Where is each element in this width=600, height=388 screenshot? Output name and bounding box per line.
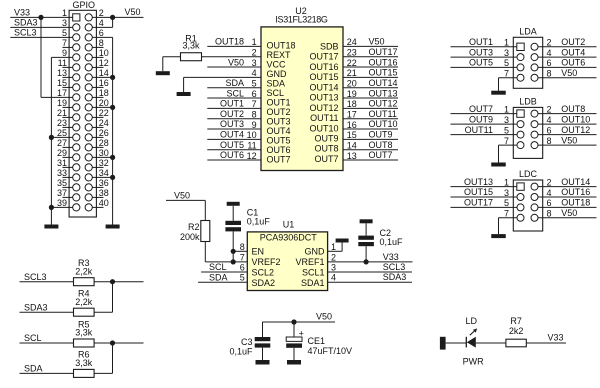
svg-text:7: 7 xyxy=(504,209,509,219)
svg-text:OUT15: OUT15 xyxy=(309,72,338,82)
svg-text:34: 34 xyxy=(99,168,109,178)
svg-text:C3: C3 xyxy=(241,337,253,347)
svg-text:V50: V50 xyxy=(561,135,577,145)
svg-text:3: 3 xyxy=(331,263,336,273)
svg-text:3,3k: 3,3k xyxy=(182,41,200,51)
svg-text:V50: V50 xyxy=(174,190,190,200)
svg-text:26: 26 xyxy=(99,128,109,138)
svg-text:V50: V50 xyxy=(316,312,332,322)
svg-text:10: 10 xyxy=(99,48,109,58)
svg-text:OUT18: OUT18 xyxy=(215,37,244,47)
svg-text:36: 36 xyxy=(99,178,109,188)
svg-text:1: 1 xyxy=(504,38,509,48)
svg-text:20: 20 xyxy=(347,79,357,89)
svg-text:SDA1: SDA1 xyxy=(301,278,325,288)
svg-text:SCL: SCL xyxy=(209,262,227,272)
svg-text:16: 16 xyxy=(347,120,357,130)
svg-text:SDA3: SDA3 xyxy=(24,302,48,312)
svg-text:OUT3: OUT3 xyxy=(469,47,493,57)
svg-text:OUT16: OUT16 xyxy=(309,62,338,72)
svg-text:OUT8: OUT8 xyxy=(314,144,338,154)
svg-text:OUT7: OUT7 xyxy=(469,104,493,114)
svg-text:OUT14: OUT14 xyxy=(369,78,398,88)
svg-text:12: 12 xyxy=(247,151,257,161)
svg-text:R2: R2 xyxy=(188,222,200,232)
svg-text:3,3k: 3,3k xyxy=(75,358,93,368)
svg-text:8: 8 xyxy=(252,110,257,120)
svg-text:10: 10 xyxy=(247,130,257,140)
svg-text:9: 9 xyxy=(62,48,67,58)
svg-text:7: 7 xyxy=(504,136,509,146)
svg-text:OUT15: OUT15 xyxy=(464,187,493,197)
svg-text:5: 5 xyxy=(252,79,257,89)
svg-text:22: 22 xyxy=(347,58,357,68)
svg-text:17: 17 xyxy=(57,88,67,98)
svg-text:200k: 200k xyxy=(180,232,200,242)
svg-text:OUT16: OUT16 xyxy=(561,187,590,197)
svg-text:6: 6 xyxy=(547,198,552,208)
svg-text:LDC: LDC xyxy=(519,169,538,179)
svg-text:14: 14 xyxy=(99,68,109,78)
svg-text:OUT6: OUT6 xyxy=(561,58,585,68)
svg-text:6: 6 xyxy=(547,58,552,68)
svg-text:V50: V50 xyxy=(369,37,385,47)
svg-text:OUT8: OUT8 xyxy=(369,140,393,150)
svg-text:3: 3 xyxy=(504,115,509,125)
svg-text:IS31FL3218G: IS31FL3218G xyxy=(275,15,328,25)
svg-text:GPIO: GPIO xyxy=(72,0,95,10)
svg-text:REXT: REXT xyxy=(267,50,292,60)
svg-text:OUT1: OUT1 xyxy=(469,37,493,47)
svg-text:3: 3 xyxy=(504,188,509,198)
svg-text:8: 8 xyxy=(547,69,552,79)
svg-text:OUT3: OUT3 xyxy=(220,119,244,129)
svg-text:23: 23 xyxy=(347,48,357,58)
svg-text:3: 3 xyxy=(504,48,509,58)
svg-text:SCL3: SCL3 xyxy=(24,272,47,282)
svg-text:OUT11: OUT11 xyxy=(369,109,397,119)
svg-text:VREF1: VREF1 xyxy=(295,257,324,267)
svg-text:5: 5 xyxy=(504,58,509,68)
svg-text:6: 6 xyxy=(547,125,552,135)
svg-text:4: 4 xyxy=(547,188,552,198)
svg-text:V50: V50 xyxy=(561,68,577,78)
svg-text:OUT9: OUT9 xyxy=(369,130,393,140)
svg-text:12: 12 xyxy=(99,58,109,68)
svg-text:OUT12: OUT12 xyxy=(369,99,398,109)
svg-text:1: 1 xyxy=(252,37,257,47)
svg-text:OUT9: OUT9 xyxy=(469,114,493,124)
svg-text:7: 7 xyxy=(252,99,257,109)
svg-text:40: 40 xyxy=(99,198,109,208)
svg-text:OUT7: OUT7 xyxy=(314,154,338,164)
svg-text:OUT17: OUT17 xyxy=(309,52,338,62)
svg-text:CE1: CE1 xyxy=(308,336,326,346)
svg-text:4: 4 xyxy=(99,18,104,28)
svg-text:2: 2 xyxy=(252,48,257,58)
svg-text:OUT13: OUT13 xyxy=(464,177,493,187)
svg-text:0,1uF: 0,1uF xyxy=(247,216,271,226)
svg-text:SCL3: SCL3 xyxy=(14,28,37,38)
svg-text:OUT13: OUT13 xyxy=(369,88,398,98)
svg-text:19: 19 xyxy=(57,98,67,108)
svg-text:6: 6 xyxy=(240,263,245,273)
svg-text:OUT1: OUT1 xyxy=(267,97,291,107)
svg-text:OUT5: OUT5 xyxy=(220,140,244,150)
svg-text:OUT11: OUT11 xyxy=(465,125,493,135)
svg-text:SCL: SCL xyxy=(24,333,42,343)
svg-text:0,1uF: 0,1uF xyxy=(229,347,253,357)
svg-text:V50: V50 xyxy=(561,208,577,218)
svg-text:OUT10: OUT10 xyxy=(369,119,398,129)
svg-text:2: 2 xyxy=(547,38,552,48)
svg-text:24: 24 xyxy=(99,118,109,128)
svg-text:35: 35 xyxy=(57,178,67,188)
svg-text:SCL1: SCL1 xyxy=(302,267,325,277)
svg-text:SDA: SDA xyxy=(24,364,43,374)
svg-text:OUT16: OUT16 xyxy=(369,57,398,67)
svg-text:33: 33 xyxy=(57,168,67,178)
svg-text:11: 11 xyxy=(247,141,256,151)
svg-text:VREF2: VREF2 xyxy=(252,257,281,267)
svg-text:LDB: LDB xyxy=(519,97,537,107)
svg-text:6: 6 xyxy=(252,89,257,99)
svg-text:29: 29 xyxy=(57,148,67,158)
svg-text:3: 3 xyxy=(252,58,257,68)
svg-text:25: 25 xyxy=(57,128,67,138)
svg-text:21: 21 xyxy=(347,68,357,78)
svg-text:SDB: SDB xyxy=(320,42,339,52)
svg-text:16: 16 xyxy=(99,78,109,88)
svg-text:32: 32 xyxy=(99,158,109,168)
svg-text:GND: GND xyxy=(305,246,326,256)
svg-text:V33: V33 xyxy=(548,333,564,343)
svg-text:1: 1 xyxy=(62,8,67,18)
svg-text:2: 2 xyxy=(99,8,104,18)
svg-text:18: 18 xyxy=(99,88,109,98)
svg-text:8: 8 xyxy=(547,136,552,146)
svg-text:37: 37 xyxy=(57,188,67,198)
svg-text:OUT11: OUT11 xyxy=(310,113,338,123)
svg-text:OUT10: OUT10 xyxy=(309,123,338,133)
svg-text:1: 1 xyxy=(504,104,509,114)
svg-text:5: 5 xyxy=(62,28,67,38)
svg-text:15: 15 xyxy=(57,78,67,88)
svg-text:SDA3: SDA3 xyxy=(383,272,407,282)
svg-text:47uFT/10V: 47uFT/10V xyxy=(308,346,353,356)
svg-text:8: 8 xyxy=(99,38,104,48)
svg-text:OUT14: OUT14 xyxy=(309,82,338,92)
svg-text:OUT6: OUT6 xyxy=(220,150,244,160)
svg-text:4: 4 xyxy=(331,273,336,283)
svg-text:OUT13: OUT13 xyxy=(309,93,338,103)
svg-text:LD: LD xyxy=(466,316,478,326)
svg-text:OUT7: OUT7 xyxy=(267,154,291,164)
svg-text:SDA: SDA xyxy=(209,272,228,282)
svg-text:PWR: PWR xyxy=(463,357,484,367)
svg-text:7: 7 xyxy=(62,38,67,48)
svg-text:OUT4: OUT4 xyxy=(267,126,291,136)
svg-text:3,3k: 3,3k xyxy=(75,328,93,338)
svg-text:OUT17: OUT17 xyxy=(369,47,398,57)
svg-text:OUT5: OUT5 xyxy=(469,58,493,68)
svg-text:13: 13 xyxy=(57,68,67,78)
svg-text:2: 2 xyxy=(547,104,552,114)
svg-text:7: 7 xyxy=(240,252,245,262)
svg-text:9: 9 xyxy=(252,120,257,130)
svg-text:13: 13 xyxy=(347,151,357,161)
svg-text:R7: R7 xyxy=(510,316,522,326)
svg-text:0,1uF: 0,1uF xyxy=(380,237,404,247)
svg-text:U1: U1 xyxy=(283,220,295,230)
svg-text:7: 7 xyxy=(504,69,509,79)
svg-text:OUT14: OUT14 xyxy=(561,177,590,187)
svg-text:2,2k: 2,2k xyxy=(75,266,93,276)
svg-text:GND: GND xyxy=(267,69,288,79)
svg-text:14: 14 xyxy=(347,141,357,151)
svg-text:11: 11 xyxy=(58,58,67,68)
svg-text:OUT1: OUT1 xyxy=(220,99,244,109)
svg-text:28: 28 xyxy=(99,138,109,148)
svg-text:6: 6 xyxy=(99,28,104,38)
svg-text:23: 23 xyxy=(57,118,67,128)
svg-text:8: 8 xyxy=(547,209,552,219)
svg-text:5: 5 xyxy=(504,198,509,208)
svg-text:OUT18: OUT18 xyxy=(561,198,590,208)
svg-text:OUT9: OUT9 xyxy=(314,133,338,143)
svg-text:5: 5 xyxy=(504,125,509,135)
svg-text:OUT12: OUT12 xyxy=(309,103,338,113)
svg-text:OUT2: OUT2 xyxy=(561,37,585,47)
svg-text:17: 17 xyxy=(347,110,357,120)
svg-text:2,2k: 2,2k xyxy=(75,297,93,307)
svg-text:5: 5 xyxy=(240,273,245,283)
svg-text:20: 20 xyxy=(99,98,109,108)
svg-text:4: 4 xyxy=(547,48,552,58)
svg-text:21: 21 xyxy=(57,108,67,118)
svg-text:2: 2 xyxy=(331,252,336,262)
svg-text:EN: EN xyxy=(252,246,265,256)
svg-text:OUT8: OUT8 xyxy=(561,104,585,114)
svg-text:2k2: 2k2 xyxy=(509,326,524,336)
svg-text:39: 39 xyxy=(57,198,67,208)
svg-text:18: 18 xyxy=(347,99,357,109)
svg-text:SCL: SCL xyxy=(226,88,244,98)
svg-text:V50: V50 xyxy=(228,57,244,67)
svg-text:V50: V50 xyxy=(125,7,141,17)
svg-text:30: 30 xyxy=(99,148,109,158)
svg-text:SCL3: SCL3 xyxy=(383,262,406,272)
svg-text:1: 1 xyxy=(504,177,509,187)
svg-text:OUT4: OUT4 xyxy=(561,47,585,57)
svg-text:OUT2: OUT2 xyxy=(220,109,244,119)
svg-text:22: 22 xyxy=(99,108,109,118)
svg-text:OUT10: OUT10 xyxy=(561,114,590,124)
svg-text:OUT15: OUT15 xyxy=(369,68,398,78)
svg-text:LDA: LDA xyxy=(519,27,537,37)
svg-text:SDA2: SDA2 xyxy=(252,278,276,288)
svg-text:PCA9306DCT: PCA9306DCT xyxy=(260,232,318,242)
svg-text:SDA: SDA xyxy=(225,78,244,88)
svg-text:OUT4: OUT4 xyxy=(220,130,244,140)
svg-text:19: 19 xyxy=(347,89,357,99)
svg-text:27: 27 xyxy=(57,138,67,148)
svg-text:4: 4 xyxy=(547,115,552,125)
svg-text:OUT17: OUT17 xyxy=(464,198,493,208)
svg-text:38: 38 xyxy=(99,188,109,198)
svg-text:15: 15 xyxy=(347,130,357,140)
svg-text:2: 2 xyxy=(547,177,552,187)
svg-text:4: 4 xyxy=(252,68,257,78)
svg-text:24: 24 xyxy=(347,37,357,47)
svg-text:8: 8 xyxy=(240,242,245,252)
svg-text:3: 3 xyxy=(62,18,67,28)
svg-text:V33: V33 xyxy=(383,252,399,262)
svg-text:1: 1 xyxy=(331,242,336,252)
svg-text:SDA3: SDA3 xyxy=(14,17,38,27)
svg-text:OUT12: OUT12 xyxy=(561,125,590,135)
svg-text:31: 31 xyxy=(57,158,67,168)
svg-text:SCL2: SCL2 xyxy=(252,267,275,277)
svg-text:OUT7: OUT7 xyxy=(369,150,393,160)
svg-text:V33: V33 xyxy=(14,8,30,18)
